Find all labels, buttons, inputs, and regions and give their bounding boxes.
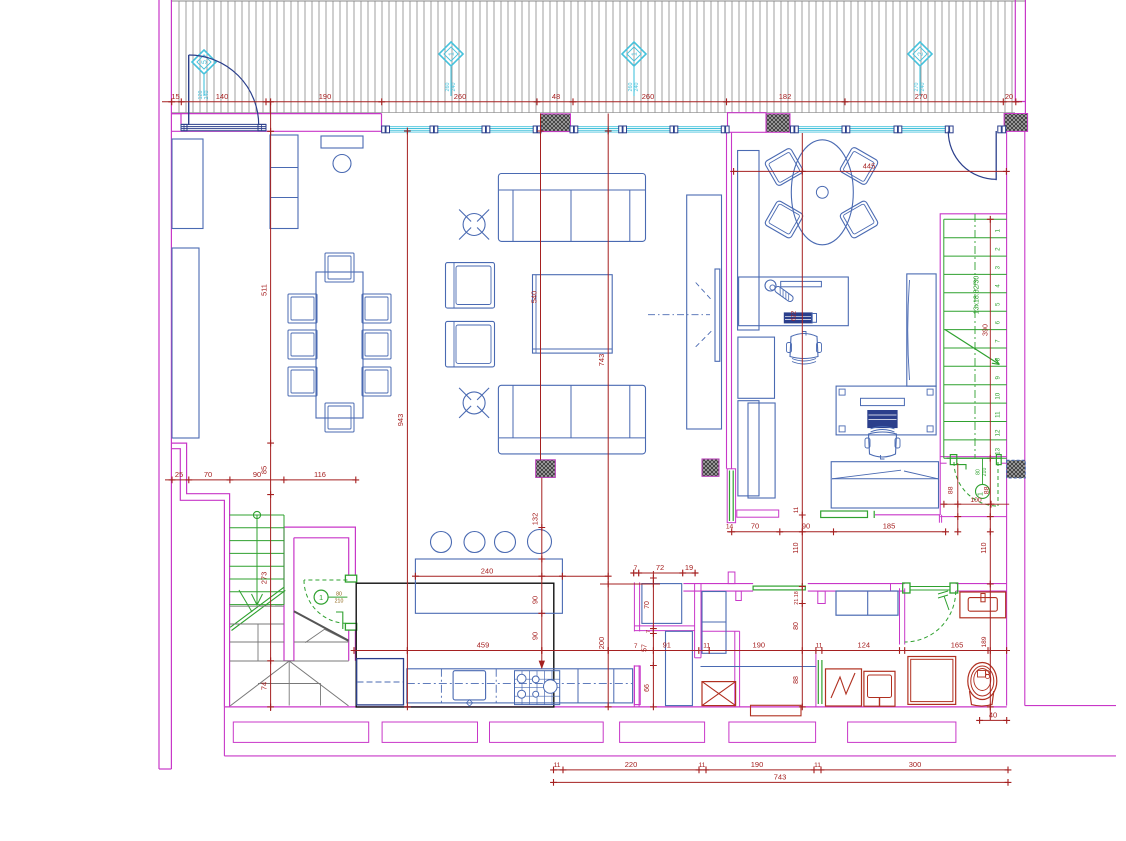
bar stools — [431, 532, 452, 553]
column hatch living — [536, 460, 556, 478]
wall right outer — [1024, 131, 1026, 705]
svg-text:88: 88 — [983, 486, 990, 494]
svg-text:11: 11 — [814, 762, 821, 769]
cabinet B — [738, 337, 775, 398]
stair right treads — [944, 218, 1007, 220]
svg-text:210: 210 — [982, 468, 988, 477]
stair mid wall U — [284, 527, 294, 661]
svg-text:90: 90 — [531, 632, 540, 640]
svg-text:70: 70 — [204, 470, 212, 479]
sideboard left 1 — [172, 139, 203, 229]
stair WC door arc — [954, 462, 998, 506]
svg-text:300: 300 — [909, 760, 922, 769]
plant 2 — [463, 392, 485, 414]
svg-text:19: 19 — [685, 563, 693, 572]
svg-text:88: 88 — [793, 676, 800, 684]
svg-text:2: 2 — [995, 247, 1002, 251]
dim bottom line 743 — [554, 781, 1009, 783]
closet door leaf mark — [336, 612, 343, 629]
window sill rect 4 — [620, 722, 705, 742]
svg-text:72: 72 — [656, 563, 664, 572]
svg-text:165: 165 — [951, 641, 964, 650]
round stool — [333, 155, 351, 173]
green pocket door bedroom — [753, 586, 805, 590]
svg-text:622: 622 — [791, 310, 798, 321]
svg-text:66: 66 — [644, 684, 651, 692]
svg-text:110: 110 — [981, 542, 988, 553]
plant 1 — [463, 214, 485, 236]
svg-text:15: 15 — [171, 92, 179, 101]
svg-text:2: 2 — [918, 52, 925, 56]
wall left inner — [170, 0, 172, 769]
svg-text:1: 1 — [995, 229, 1002, 233]
svg-text:260: 260 — [454, 92, 467, 101]
dim vertical 511/85/273/74 — [270, 102, 272, 711]
TV centerline — [648, 314, 710, 316]
stair right centerline — [974, 214, 976, 458]
bottom wall right extension — [1025, 705, 1116, 707]
kitchen island — [415, 559, 562, 613]
hob — [515, 671, 560, 705]
svg-text:240: 240 — [451, 83, 457, 92]
door jamb top left — [171, 114, 181, 125]
window sill rect 1 — [233, 722, 368, 742]
stairwell enclosure wall — [940, 214, 1006, 515]
TV panel — [715, 269, 720, 361]
dim vertical 990 long — [989, 458, 991, 720]
sink — [453, 671, 486, 700]
wall tab below band — [818, 591, 825, 603]
dim vertical 943 — [406, 131, 408, 707]
svg-text:270: 270 — [915, 92, 928, 101]
stair gray tent large — [230, 661, 348, 706]
media wall unit — [687, 195, 722, 429]
round table — [791, 140, 853, 245]
stair left cut line — [230, 587, 285, 630]
dim vertical 70/57/66 — [652, 571, 654, 707]
window glass band — [382, 126, 541, 128]
green door strip living left — [727, 469, 735, 523]
svg-text:21.18: 21.18 — [794, 591, 800, 605]
armchair 2 — [446, 321, 495, 367]
svg-text:7: 7 — [634, 643, 638, 650]
svg-text:5: 5 — [995, 302, 1002, 306]
wall below dining right segment — [875, 514, 940, 516]
wall dining left vertical pair — [726, 133, 728, 469]
svg-text:182: 182 — [779, 92, 792, 101]
wall right of X-box — [734, 631, 736, 707]
svg-text:116: 116 — [314, 470, 326, 479]
desk 1 — [739, 277, 849, 326]
wall left outer — [158, 0, 160, 769]
svg-text:1: 1 — [449, 52, 456, 56]
svg-text:40: 40 — [989, 711, 997, 720]
X-box appliance — [702, 682, 736, 706]
desk lamp — [765, 280, 776, 291]
stair left gray flight — [230, 605, 284, 607]
svg-text:240: 240 — [634, 83, 640, 92]
coffee table — [533, 275, 613, 353]
toilet — [968, 663, 997, 700]
wall band divider — [890, 584, 892, 592]
svg-text:110: 110 — [793, 542, 800, 553]
washbasin — [960, 592, 1006, 618]
stair gray lower verticals — [288, 661, 290, 706]
bath pivot door — [903, 583, 910, 593]
entry door leaf — [188, 55, 190, 125]
svg-text:10: 10 — [995, 392, 1002, 399]
dim line 14 70 90 185 — [727, 531, 946, 533]
svg-text:240: 240 — [481, 567, 494, 576]
svg-text:7: 7 — [995, 339, 1002, 343]
svg-text:273: 273 — [259, 572, 268, 585]
bottom band outer line — [224, 755, 1116, 757]
svg-text:48: 48 — [552, 92, 560, 101]
monitor desk2 — [861, 398, 905, 405]
dim vertical 743/200 — [607, 114, 609, 707]
wall laundry left — [815, 651, 817, 707]
dim line 459 main — [354, 650, 1009, 652]
svg-text:1: 1 — [319, 593, 323, 602]
wall below dining bar — [737, 510, 779, 517]
vestibule box top — [728, 113, 767, 133]
bottom band left edge — [223, 707, 225, 756]
svg-text:90: 90 — [802, 522, 810, 531]
svg-text:743: 743 — [597, 354, 606, 367]
wall WC right pair — [694, 584, 696, 658]
svg-text:11: 11 — [793, 506, 800, 513]
top-right door leaf — [995, 131, 997, 180]
sofa top — [498, 174, 645, 242]
svg-text:943: 943 — [396, 414, 405, 427]
closet walls outer — [284, 527, 355, 661]
dryer — [864, 671, 895, 706]
wall tab below band 2 — [736, 591, 742, 600]
WC mid walls — [633, 582, 635, 631]
office chair 1 — [787, 332, 822, 365]
stair WC tag circle — [976, 484, 990, 498]
window tag 260/240 — [439, 42, 463, 66]
TV projection dashes — [696, 283, 712, 301]
wall step bottom left outer — [171, 443, 229, 707]
svg-text:240: 240 — [920, 83, 926, 92]
pier hatched 2 — [766, 114, 790, 133]
wall inner face left of windows — [171, 130, 381, 132]
wall pillar above band — [728, 572, 735, 584]
svg-text:210: 210 — [335, 599, 344, 605]
stair left green treads — [230, 514, 284, 516]
svg-text:90: 90 — [253, 470, 261, 479]
svg-text:13x18.82/30: 13x18.82/30 — [974, 276, 981, 315]
svg-text:100: 100 — [970, 497, 982, 504]
laundry door green — [817, 660, 819, 704]
svg-text:189: 189 — [981, 636, 988, 647]
window sill rect 3 — [490, 722, 604, 742]
svg-text:540: 540 — [529, 291, 538, 304]
wall laundry-bath divider — [899, 588, 901, 644]
bench C2 — [748, 403, 775, 498]
dim line short 584 — [600, 583, 660, 585]
wall right inner — [1006, 131, 1008, 705]
svg-text:25: 25 — [175, 470, 183, 479]
dim line 25 70 90 116 — [165, 479, 356, 481]
svg-text:7: 7 — [646, 630, 652, 633]
wall step bottom left inner — [171, 449, 224, 707]
svg-text:9: 9 — [995, 376, 1002, 380]
keyboard 2 — [868, 411, 897, 428]
dim line 40 — [980, 719, 1007, 721]
svg-text:260: 260 — [642, 92, 655, 101]
wall top right outer corner — [1015, 0, 1025, 114]
green slider below futon — [821, 511, 868, 518]
svg-text:13: 13 — [995, 447, 1002, 454]
svg-text:4: 4 — [995, 284, 1002, 288]
top-right door swing arc — [948, 131, 996, 179]
svg-text:190: 190 — [753, 641, 766, 650]
svg-text:11: 11 — [703, 643, 710, 650]
svg-text:3: 3 — [995, 265, 1002, 269]
bedroom wardrobe — [702, 592, 726, 654]
window sill rect 6 — [848, 722, 956, 742]
svg-text:1: 1 — [632, 52, 639, 56]
wall left bottom cap — [159, 768, 171, 770]
closet thick diagonal — [294, 611, 349, 640]
svg-text:20: 20 — [1005, 92, 1013, 101]
kitchen counter — [407, 669, 633, 703]
bath door arc — [905, 591, 956, 642]
svg-text:190: 190 — [751, 760, 764, 769]
cabinet tall lower — [666, 631, 693, 705]
dim vertical 540 — [540, 114, 542, 460]
svg-text:11: 11 — [816, 643, 823, 650]
svg-text:80: 80 — [336, 591, 342, 597]
bed edge line — [701, 666, 816, 668]
laundry loveseat — [836, 591, 898, 615]
washer zigzag — [826, 669, 862, 706]
stair right arrow — [945, 329, 1000, 364]
futon — [831, 462, 938, 508]
window tag 120/240 — [192, 50, 216, 74]
dim line 7 72 19 — [634, 572, 695, 574]
door mat — [751, 705, 802, 716]
bookshelf column — [270, 135, 298, 229]
closet tag circle 1 — [314, 590, 328, 604]
svg-text:220: 220 — [625, 760, 638, 769]
dim bottom line 1 — [554, 769, 1009, 771]
dining table — [316, 272, 363, 418]
svg-text:11: 11 — [699, 762, 706, 769]
dining chairs right — [362, 294, 391, 323]
svg-text:88: 88 — [948, 486, 955, 494]
dim top line — [162, 101, 1022, 103]
pier hatched 3 — [1004, 114, 1028, 132]
dining chairs left — [288, 294, 317, 323]
svg-text:124: 124 — [858, 641, 871, 650]
svg-text:90: 90 — [531, 596, 540, 604]
svg-text:743: 743 — [774, 773, 787, 782]
shower — [908, 657, 956, 705]
wall bedroom lower left pair — [633, 665, 635, 707]
svg-text:80: 80 — [976, 469, 982, 475]
fridge — [357, 659, 404, 705]
desk shelf strip — [781, 281, 822, 286]
stair WC door — [947, 457, 1001, 459]
svg-text:8: 8 — [995, 357, 1002, 361]
svg-text:140: 140 — [216, 92, 229, 101]
tall cabinet D — [907, 274, 936, 386]
desk 2 — [836, 386, 936, 435]
svg-text:459: 459 — [477, 641, 490, 650]
dim line 240 — [415, 575, 608, 577]
dim vertical 802 — [801, 133, 803, 707]
column hatch stair bottom — [1007, 460, 1026, 478]
svg-text:7: 7 — [634, 565, 638, 572]
round table chairs — [764, 147, 804, 186]
deck hatch band top — [179, 1, 1012, 113]
svg-text:190: 190 — [319, 92, 332, 101]
svg-text:91: 91 — [663, 641, 671, 650]
svg-text:200: 200 — [597, 637, 606, 650]
svg-text:445: 445 — [863, 162, 876, 171]
dining chair top — [325, 253, 354, 282]
window sill rect 5 — [729, 722, 816, 742]
stair left centerline — [256, 515, 258, 604]
window sill rect 2 — [382, 722, 477, 742]
window tag 270/240 — [908, 42, 932, 66]
svg-text:14: 14 — [726, 524, 734, 531]
entry door swing arc — [189, 55, 259, 125]
keyboard 1 — [784, 313, 812, 323]
window mullions — [382, 126, 386, 133]
svg-text:390: 390 — [981, 324, 990, 336]
closet small tent — [305, 629, 348, 642]
svg-text:5: 5 — [202, 60, 209, 64]
svg-text:11: 11 — [995, 411, 1002, 418]
bottom wall main — [224, 706, 1006, 708]
bench C1 — [738, 401, 759, 496]
svg-text:240: 240 — [204, 91, 210, 100]
kitchen black outline — [356, 583, 554, 707]
column hatch corridor — [702, 459, 719, 476]
svg-text:132: 132 — [531, 513, 540, 526]
closet door jambs — [345, 575, 356, 582]
counter end bracket — [634, 666, 640, 705]
sofa bottom — [498, 385, 645, 454]
stair WC walls — [940, 456, 1006, 458]
pier hatched 1 — [541, 114, 571, 132]
office chair 2 — [865, 427, 900, 460]
dim line 445 — [734, 170, 1007, 172]
sideboard left 2 — [172, 248, 199, 438]
wall top face left solid part — [171, 113, 381, 115]
svg-text:74: 74 — [259, 682, 268, 690]
window tag 260/240 — [622, 42, 646, 66]
armchair 1 — [446, 263, 495, 309]
closet door arc — [304, 580, 347, 623]
dim vertical 132/90/90 — [541, 478, 543, 668]
wall shelf — [321, 136, 363, 148]
svg-text:12: 12 — [995, 429, 1002, 436]
svg-text:70: 70 — [644, 601, 651, 609]
svg-text:70: 70 — [751, 522, 759, 531]
svg-text:6: 6 — [995, 320, 1002, 324]
stair dim 390 line — [989, 219, 991, 458]
dining chair bottom — [325, 403, 354, 432]
bedroom top wall band — [683, 583, 753, 585]
svg-text:11: 11 — [554, 762, 561, 769]
tall cabinet A — [738, 151, 759, 331]
closet walls inner — [294, 538, 349, 661]
WC shower tray — [642, 584, 682, 624]
entry door sill — [181, 123, 266, 125]
svg-text:80: 80 — [793, 622, 800, 630]
svg-text:511: 511 — [259, 284, 268, 296]
svg-text:185: 185 — [883, 522, 896, 531]
